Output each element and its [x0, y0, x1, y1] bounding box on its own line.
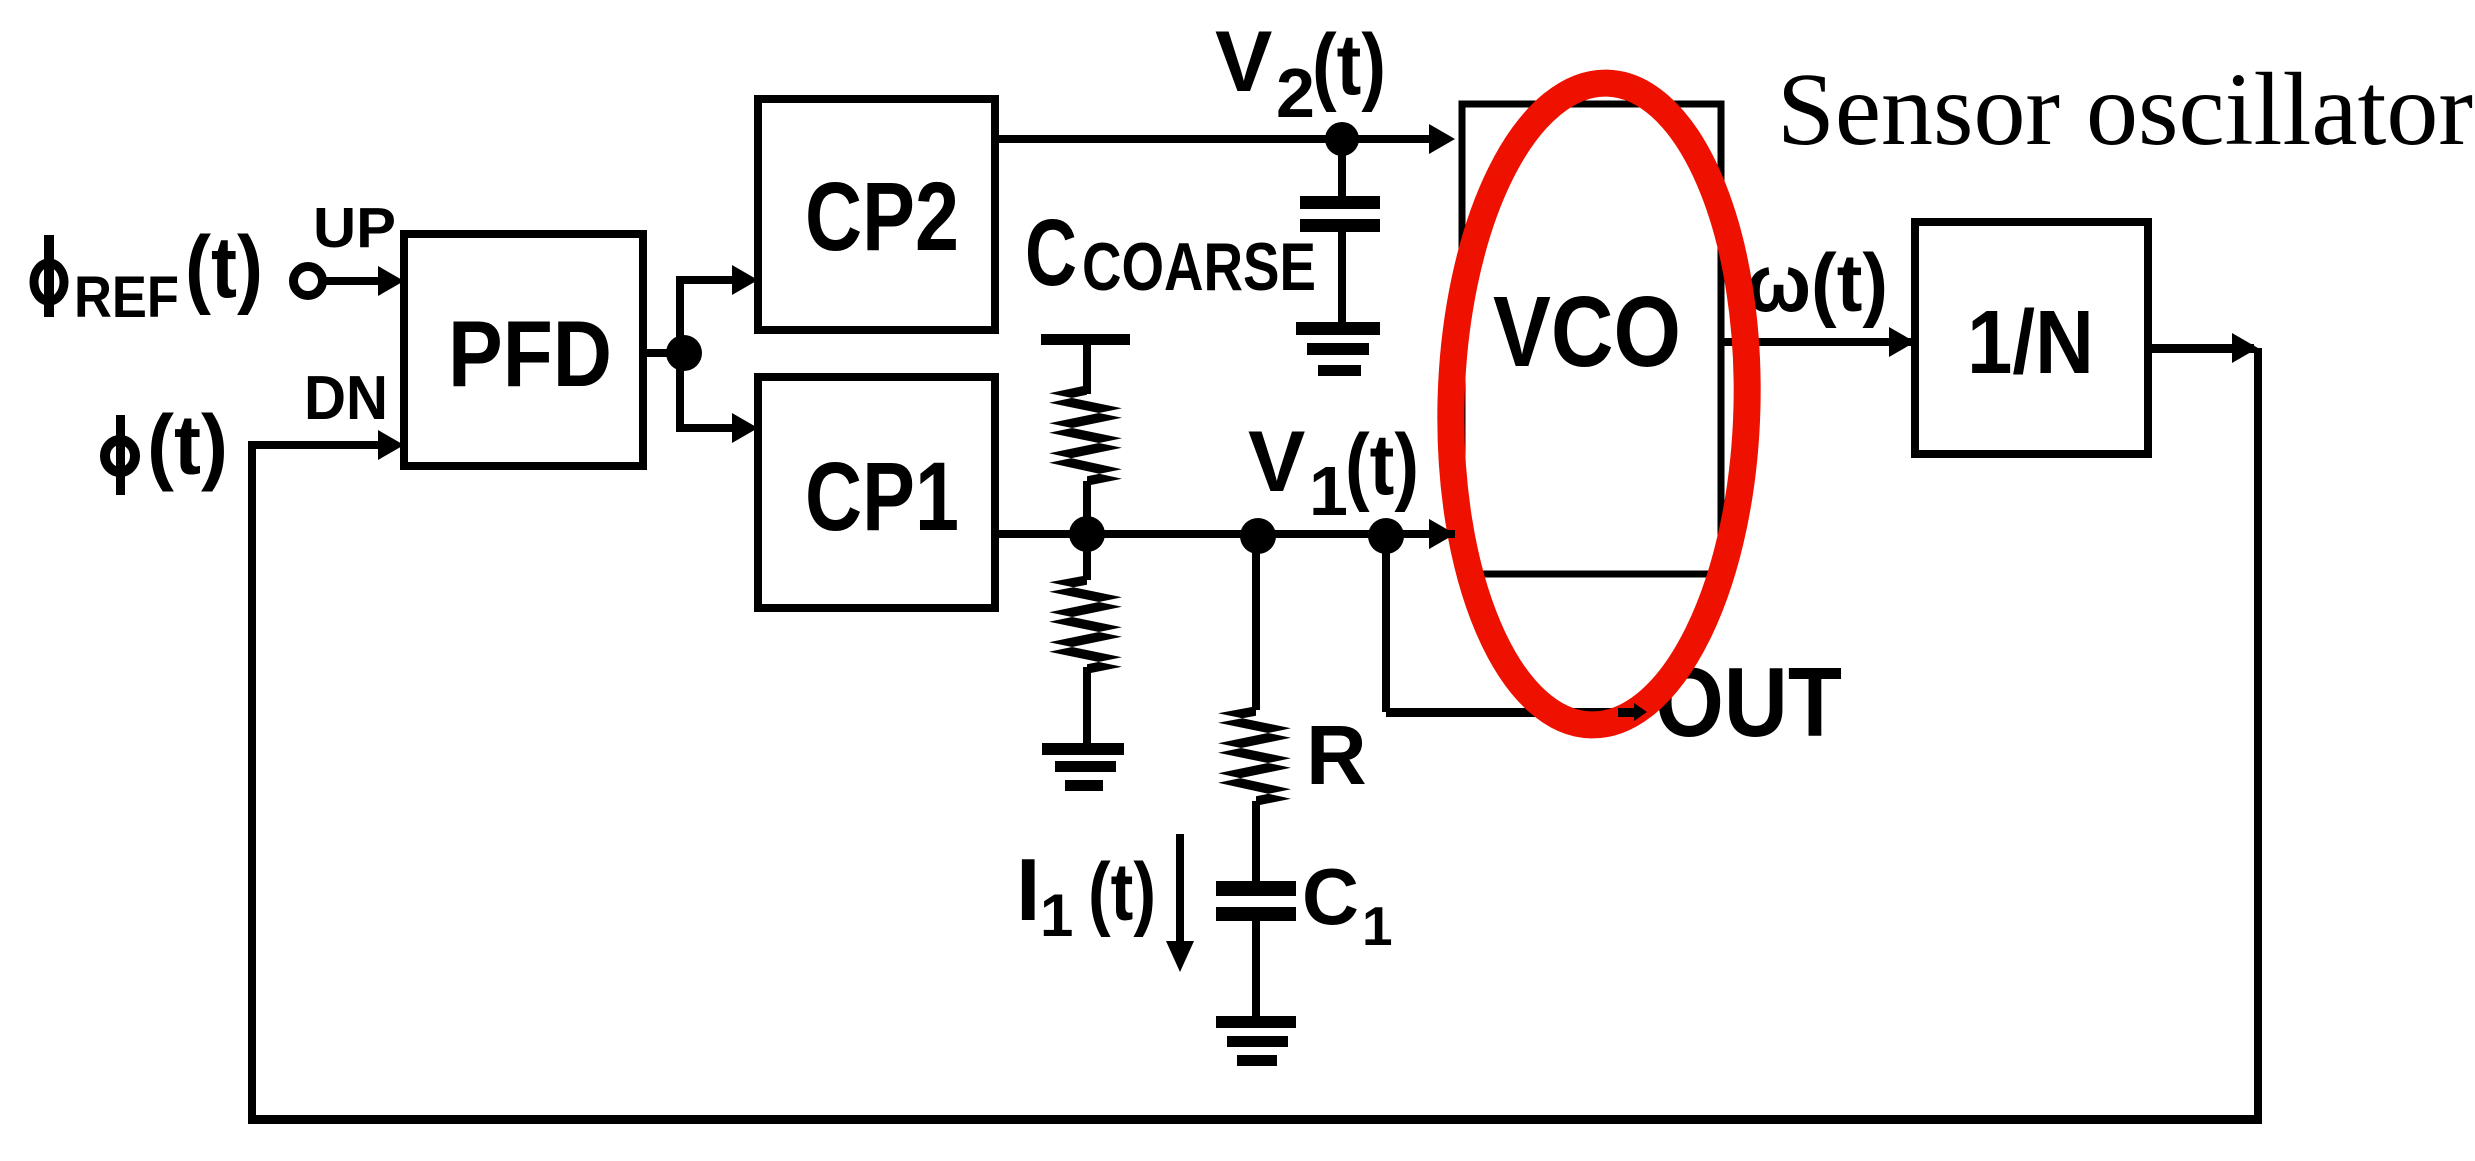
svg-text:C: C: [1302, 852, 1359, 941]
wire CP1 output to VCO (V1 line): [995, 530, 1431, 538]
svg-text:UP: UP: [313, 196, 396, 260]
ground below CCOARSE: [1296, 322, 1380, 335]
node junction dot V2: [1325, 122, 1359, 156]
red ellipse highlight around VCO: [1443, 79, 1755, 728]
resistor lower divider: [1083, 534, 1091, 580]
svg-text:R: R: [1306, 708, 1367, 802]
node junction dot divider: [1069, 516, 1105, 552]
wire 1/N output with arrow: [2148, 344, 2254, 353]
svg-text:(t): (t): [1088, 847, 1156, 938]
node phi(t) feedback input label: [105, 398, 228, 495]
svg-text:2: 2: [1276, 54, 1315, 132]
wire feedback bottom: [252, 1115, 2262, 1124]
block VCO: [1462, 104, 1721, 574]
wire branch to CP1 arrow: [676, 424, 734, 432]
svg-text:COARSE: COARSE: [1082, 229, 1316, 305]
resistor divider top bar: [1041, 334, 1130, 345]
wire branch vertical: [676, 276, 684, 432]
wire UP input arrow: [322, 277, 380, 285]
node junction dot PFD output: [666, 335, 702, 371]
svg-text:CP1: CP1: [805, 442, 959, 551]
ground below C1: [1216, 1016, 1296, 1028]
wire feedback left vertical: [248, 441, 256, 1124]
svg-text:1: 1: [1362, 895, 1393, 957]
resistor upper divider: [1049, 385, 1122, 486]
svg-text:C: C: [1025, 200, 1077, 306]
svg-text:1/N: 1/N: [1967, 293, 2094, 393]
wire feedback right vertical: [2254, 348, 2262, 1124]
svg-text:(t): (t): [147, 398, 228, 492]
wire CP2 output to VCO (V2 line): [995, 135, 1431, 143]
resistor R branch wire: [1252, 536, 1260, 710]
wire V1 arrow over ellipse: [1429, 530, 1455, 538]
block CP2: [758, 99, 995, 330]
input terminal circle: [294, 267, 323, 296]
svg-text:CP2: CP2: [805, 162, 959, 271]
wire PFD output stub: [643, 349, 684, 357]
svg-text:V: V: [1248, 414, 1305, 510]
svg-text:(t): (t): [1345, 417, 1419, 513]
svg-text:I: I: [1016, 840, 1040, 939]
svg-text:VCO: VCO: [1493, 276, 1681, 388]
svg-text:ω(t): ω(t): [1746, 238, 1888, 329]
svg-text:V: V: [1215, 14, 1272, 110]
svg-text:(t): (t): [185, 219, 263, 316]
wire stub top bar to upper resistor: [1083, 345, 1091, 394]
ground below lower divider: [1042, 743, 1124, 755]
wire OUT arrow over ellipse: [1618, 708, 1636, 717]
svg-text:(t): (t): [1312, 17, 1386, 113]
node junction dot V1 b: [1368, 518, 1404, 554]
svg-text:PFD: PFD: [448, 301, 612, 406]
block PFD: [404, 234, 643, 466]
svg-text:Sensor oscillator: Sensor oscillator: [1777, 52, 2473, 167]
resistor R: [1218, 706, 1291, 806]
svg-text:1: 1: [1040, 882, 1073, 949]
capacitor CCOARSE: [1338, 139, 1346, 196]
svg-text:DN: DN: [304, 364, 388, 433]
svg-text:1: 1: [1309, 452, 1348, 530]
wire OUT branch: [1382, 536, 1390, 712]
capacitor C1: [1216, 881, 1296, 896]
block 1/N: [1915, 222, 2148, 454]
node phi_REF(t) input label: [34, 219, 263, 330]
wire DN input arrow: [248, 441, 380, 449]
node junction dot V1 a: [1240, 518, 1276, 554]
block CP1: [758, 377, 995, 608]
current arrow I1: [1176, 834, 1184, 945]
svg-text:REF: REF: [74, 265, 179, 330]
wire VCO output (omega): [1724, 338, 1915, 346]
wire branch to CP2 arrow: [676, 276, 734, 284]
